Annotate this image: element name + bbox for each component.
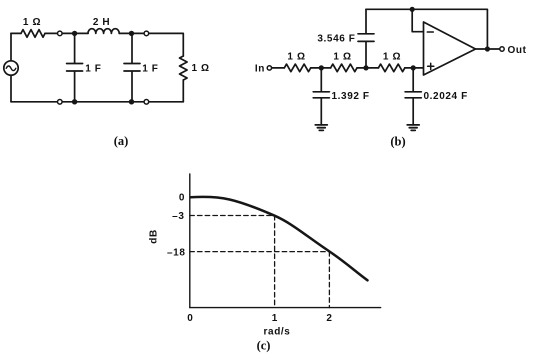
svg-text:1: 1: [272, 313, 278, 324]
ground: [407, 125, 419, 130]
svg-text:2 H: 2 H: [93, 17, 110, 28]
terminal Out: [500, 47, 504, 51]
capacitor C4 1.392F: [313, 68, 329, 125]
wire: [10, 33, 12, 60]
node dot: [129, 99, 134, 104]
svg-text:1.392 F: 1.392 F: [332, 91, 370, 102]
svg-text:Out: Out: [508, 45, 527, 56]
node dot: [72, 99, 77, 104]
node dot: [319, 65, 324, 70]
node dot: [363, 65, 368, 70]
svg-text:–18: –18: [167, 248, 186, 259]
terminal (open) top-right: [144, 31, 149, 36]
svg-text:1 Ω: 1 Ω: [287, 51, 305, 62]
capacitor C5 0.2024F: [405, 68, 421, 125]
terminal In: [267, 66, 271, 70]
dashed -18 dB level: [190, 251, 330, 253]
wire feedback top: [366, 9, 487, 49]
dashed -3 dB level: [190, 215, 275, 217]
wire: [45, 32, 57, 34]
source V1: [4, 61, 18, 75]
dashed 2 rad/s: [328, 252, 330, 308]
svg-text:3.546 F: 3.546 F: [317, 33, 355, 44]
svg-text:1 Ω: 1 Ω: [383, 51, 401, 62]
pin -: [427, 31, 433, 33]
node dot: [129, 31, 134, 36]
wire output: [476, 48, 500, 50]
node dot: [72, 31, 77, 36]
resistor R4 1ohm: [331, 64, 357, 72]
wire: [11, 32, 21, 34]
svg-text:rad/s: rad/s: [264, 326, 291, 337]
svg-text:(a): (a): [114, 134, 129, 148]
wire inverting input: [412, 9, 423, 31]
svg-text:0.2024 F: 0.2024 F: [424, 91, 468, 102]
wire: [149, 33, 183, 56]
terminal (open) bottom-left: [58, 100, 63, 105]
capacitor C2 1F: [124, 33, 140, 101]
svg-text:1 Ω: 1 Ω: [333, 51, 351, 62]
svg-text:1 F: 1 F: [142, 63, 158, 74]
wire: [10, 75, 12, 102]
x axis: [190, 307, 381, 309]
y axis: [189, 174, 191, 308]
wire: [62, 32, 88, 34]
inductor L1 2H: [88, 29, 119, 34]
node dot: [485, 46, 490, 51]
resistor R3 1ohm: [284, 64, 310, 72]
capacitor C3 3.546F feedback: [358, 9, 374, 68]
resistor R2 1ohm load: [180, 56, 188, 80]
terminal (open) top-left: [58, 31, 63, 36]
svg-text:2: 2: [326, 313, 332, 324]
wire bottom rail: [11, 101, 183, 103]
wire: [119, 32, 144, 34]
svg-text:1 Ω: 1 Ω: [23, 17, 41, 28]
capacitor C1 1F: [67, 33, 83, 101]
svg-text:dB: dB: [149, 229, 160, 244]
pin +: [428, 63, 434, 69]
svg-text:In: In: [255, 63, 265, 74]
svg-text:0: 0: [187, 313, 193, 324]
dashed 1 rad/s: [274, 216, 276, 308]
wire: [357, 67, 378, 69]
svg-text:1 F: 1 F: [85, 63, 101, 74]
response curve: [191, 197, 368, 280]
op-amp U1: [424, 22, 476, 75]
svg-text:0: 0: [179, 192, 185, 203]
svg-text:1 Ω: 1 Ω: [192, 63, 210, 74]
ground: [315, 125, 327, 130]
wire: [405, 67, 424, 69]
wire: [311, 67, 331, 69]
wire: [272, 67, 285, 69]
node dot: [411, 65, 416, 70]
svg-text:(c): (c): [257, 339, 271, 353]
terminal (open) bottom-right: [144, 100, 149, 105]
svg-text:–3: –3: [172, 211, 184, 222]
wire: [182, 80, 184, 102]
resistor R5 1ohm: [378, 64, 404, 72]
svg-text:(b): (b): [390, 135, 405, 149]
node dot: [410, 7, 415, 12]
resistor R1 1ohm series: [21, 30, 45, 38]
